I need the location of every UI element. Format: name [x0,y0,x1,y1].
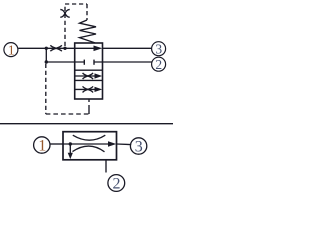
position divider 2 [75,79,103,81]
wire body to port 3 [103,47,152,49]
svg-text:2: 2 [113,176,121,193]
node junction dot A [45,47,48,50]
wire body bottom to port 2 [105,160,107,173]
venturi lower curve [73,146,105,152]
spring [80,20,97,43]
valve body envelope [75,43,103,99]
flow path arrow (position 1) [75,46,103,52]
svg-text:3: 3 [135,139,143,156]
position divider 1 [75,69,103,71]
wire port1 to simplified body [50,143,63,145]
blocked port line (right) with tick, to port 2 [94,60,152,65]
node junction dot C [45,60,48,63]
svg-text:3: 3 [155,41,162,56]
wire port1 to valve body (main line 1) [18,47,74,49]
node junction dot D [69,142,72,145]
simplified valve body [63,132,117,160]
pilot drain (dashed) left vertical [45,64,47,114]
svg-text:1: 1 [8,42,15,57]
pilot drain vertical up to body bottom [88,99,90,114]
pilot line (dashed) horizontal top run [65,3,87,5]
port 1 circle (top) [4,42,18,57]
pilot line (dashed) up from node B [64,4,66,46]
port 3 circle (bottom) [130,138,146,156]
pilot drain (dashed) bottom run [46,113,89,115]
pilot orifice X on dashed pilot line [60,9,69,17]
venturi upper curve [73,135,106,140]
pilot line (dashed) down to spring [86,4,88,20]
orifice (control orifice on main line) [50,45,61,51]
metering row (position 2): orifice X and arrow [75,73,103,79]
wire node A down to blocked line [45,48,47,62]
port 3 circle (top) [152,41,166,56]
separator line [0,123,173,125]
svg-text:1: 1 [38,138,46,155]
svg-text:2: 2 [155,57,162,72]
main flow line with arrow to port 3 [63,141,131,147]
port 2 circle (bottom) [108,175,125,193]
bypass arrow down [68,144,73,159]
metering row (position 3): orifice X and arrow [75,86,103,92]
blocked port line (left) with tick [46,60,84,65]
node junction dot B [63,47,66,50]
port 1 circle (bottom) [34,137,50,155]
port 2 circle (top) [152,57,166,72]
